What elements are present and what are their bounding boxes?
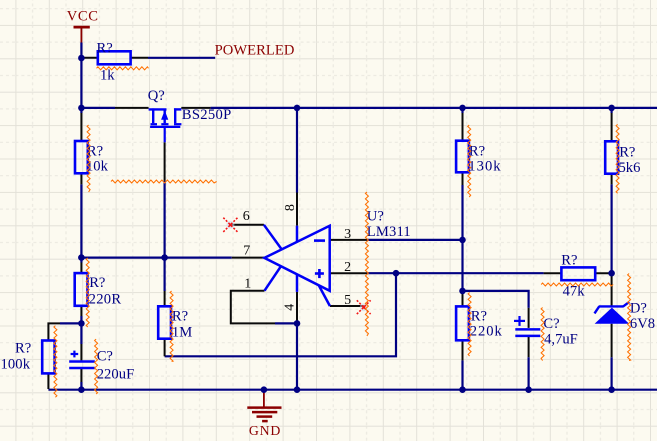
junction node J3 [78, 254, 85, 261]
pin op-amp 4 [296, 292, 298, 324]
pin mosfet gate [164, 142, 166, 181]
svg-text:GND: GND [249, 423, 281, 438]
compile squiggle R220k [468, 293, 471, 357]
svg-text:LM311: LM311 [367, 224, 411, 240]
svg-text:7: 7 [243, 244, 250, 259]
wire 220R bottom to node A [80, 316, 82, 323]
wire cap bottom to gnd rail [80, 382, 82, 390]
svg-text:1M: 1M [172, 324, 192, 340]
svg-text:3: 3 [344, 227, 351, 242]
svg-text:R?: R? [97, 40, 113, 56]
pin R100k bottom [47, 373, 49, 389]
svg-text:5k6: 5k6 [619, 160, 641, 176]
wire pin2 to 47k [367, 272, 544, 274]
wire node A to 100k branch [60, 322, 81, 324]
svg-text:220k: 220k [470, 324, 503, 340]
wire pin3 node down to 220k node [461, 240, 463, 291]
pin op-amp 8 [296, 193, 298, 226]
pin R220R top [80, 263, 82, 274]
compile squiggle under mosfet [111, 180, 217, 183]
svg-text:R?: R? [172, 308, 188, 324]
wire mosfet gate down to J4 [164, 181, 166, 258]
pin mosfet drain [181, 107, 210, 109]
svg-text:130k: 130k [468, 158, 501, 174]
wire R10k bottom to J3 [80, 184, 82, 257]
svg-text:Q?: Q? [148, 88, 165, 104]
junction node gnd tap [261, 386, 268, 393]
svg-text:D?: D? [630, 300, 647, 316]
svg-text:220R: 220R [89, 291, 122, 307]
pin R220k top [462, 291, 464, 307]
wire 220R top from J3 [80, 258, 82, 263]
capacitor C220uF [69, 349, 134, 383]
svg-text:5: 5 [344, 293, 351, 308]
junction node 220k cap [459, 288, 466, 295]
svg-text:100k: 100k [1, 356, 31, 372]
pin R220R bottom [80, 306, 82, 316]
junction node R130k rail [459, 105, 466, 112]
svg-text:4: 4 [283, 304, 298, 311]
svg-text:BS250P: BS250P [182, 107, 232, 123]
svg-text:R?: R? [15, 341, 31, 357]
wire R130k top [461, 108, 463, 113]
pin R47k right [595, 272, 611, 274]
pin op-amp 1 with loop [231, 291, 275, 324]
junction node pin3 [459, 237, 466, 244]
svg-text:POWERLED: POWERLED [215, 42, 295, 58]
pin R220k bottom [462, 340, 464, 360]
pin op-amp 7 [232, 257, 265, 259]
pin C220uF bottom [80, 369, 82, 382]
pin R5k6 top [611, 113, 613, 141]
svg-text:R?: R? [619, 144, 635, 160]
junction node cap47 gnd [525, 386, 532, 393]
pin op-amp 2 [330, 272, 367, 274]
compile squiggle C220uF [95, 339, 98, 394]
compile squiggle zener [628, 274, 631, 361]
wire pin1 loop navy part [275, 322, 297, 324]
resistor R130k [456, 141, 501, 175]
compile squiggle R220R [86, 258, 89, 327]
pin op-amp 5 [330, 305, 364, 307]
wire 220k bottom to gnd rail [461, 360, 463, 389]
svg-text:1: 1 [244, 277, 251, 292]
wire zener bottom to gnd rail [610, 357, 612, 390]
junction node A [78, 320, 85, 327]
junction node zener gnd [608, 386, 615, 393]
svg-text:R?: R? [471, 308, 487, 324]
wire cap 4.7uF bottom to gnd rail [527, 357, 529, 390]
capacitor C4.7uF [514, 316, 578, 348]
junction node pin8 rail [294, 105, 301, 112]
svg-text:R?: R? [469, 144, 485, 160]
wire VCC stub to node [80, 43, 82, 59]
resistor R220R [75, 273, 122, 307]
wire pin8 top [296, 108, 298, 193]
transistor Q1 BS250P [148, 88, 232, 142]
pin C4.7uF bottom [528, 337, 530, 357]
resistor R10k [75, 141, 109, 175]
pin R10k top [80, 113, 82, 141]
compile squiggle U? [365, 192, 368, 336]
diode D1 zener 6V8 [595, 300, 656, 332]
svg-text:R?: R? [561, 253, 577, 269]
svg-text:47k: 47k [563, 284, 586, 300]
wire R5k6 bottom to 47k node [610, 184, 612, 273]
wire J4 down to R1M [164, 258, 166, 291]
junction node 220k gnd [459, 386, 466, 393]
svg-text:220uF: 220uF [97, 366, 135, 382]
pin mosfet source [115, 107, 149, 109]
no-erc marker pin5 [357, 300, 371, 314]
ground GND [247, 390, 281, 438]
svg-text:6V8: 6V8 [630, 316, 655, 332]
wire 220k node to cap 4.7uF [463, 291, 529, 308]
wire R10k top [80, 108, 82, 113]
resistor R1k [97, 40, 131, 83]
svg-text:C?: C? [543, 316, 559, 332]
svg-text:4,7uF: 4,7uF [544, 332, 578, 348]
junction node pin2 feedback [393, 270, 400, 277]
pin R1k left [81, 57, 97, 59]
resistor R5k6 [605, 141, 640, 176]
pin R10k bottom [80, 173, 82, 184]
wire R130k bottom to pin3 node [461, 185, 463, 240]
wire top rail left segment [81, 107, 115, 109]
pin R47k left [544, 272, 562, 274]
svg-text:R?: R? [89, 275, 105, 291]
wire R1M bottom loop to pin2 node [165, 273, 396, 356]
pin R5k6 bottom [611, 174, 613, 185]
compile squiggle R100k [54, 326, 57, 398]
pin R1k right [131, 57, 148, 59]
pin R1M top [164, 291, 166, 306]
wire divider rail J3 to pin7 [81, 257, 231, 259]
pin R130k bottom [462, 172, 464, 185]
compile squiggle C4.7uF [541, 308, 544, 361]
junction node cap220 gnd [78, 386, 85, 393]
compile squiggle under 47k [541, 283, 613, 286]
pin R100k loop top [48, 323, 60, 340]
wire pin4 bottom junction to gnd rail [296, 323, 298, 389]
svg-text:1k: 1k [100, 68, 115, 84]
wire top rail right of mosfet [211, 107, 657, 109]
svg-text:VCC: VCC [67, 9, 98, 25]
junction node 47k zener [608, 270, 615, 277]
resistor R100k [1, 341, 55, 374]
pin R1M bottom [164, 339, 166, 357]
junction node R5k6 rail [608, 105, 615, 112]
pin R130k top [462, 113, 464, 141]
resistor R220k [456, 306, 502, 340]
compile squiggle R5k6 [616, 124, 619, 193]
svg-text:2: 2 [344, 260, 351, 275]
compile squiggle R1M [170, 291, 173, 362]
wire R5k6 top [610, 108, 612, 113]
svg-text:C?: C? [97, 349, 113, 365]
compile squiggle R130k [468, 125, 471, 197]
wire gnd rail [48, 389, 657, 391]
junction node J4 [161, 254, 168, 261]
pin zener top [611, 273, 613, 306]
junction node pin4 gnd [294, 386, 301, 393]
compile squiggle R10k [87, 125, 90, 192]
junction node VCC-R1k [78, 55, 85, 62]
wire pin3 to R130k node [367, 239, 463, 241]
pin zener bottom [611, 324, 613, 358]
compile squiggle under R1k [97, 67, 149, 70]
power port VCC [67, 9, 98, 43]
junction node pin4 [294, 320, 301, 327]
resistor R1M [158, 306, 192, 340]
svg-text:U?: U? [367, 208, 384, 224]
pin C220uF top [80, 344, 82, 360]
wire VCC node down to gate rail [80, 58, 82, 108]
junction node top rail left [78, 105, 85, 112]
svg-text:8: 8 [283, 204, 298, 211]
wire node A down to cap [80, 323, 82, 344]
no-erc marker pin6 [223, 218, 237, 232]
wire R1k out to POWERLED [148, 57, 215, 59]
svg-text:6: 6 [243, 209, 250, 224]
op-amp U1 LM311 [264, 208, 411, 306]
pin op-amp 6 [232, 224, 264, 226]
resistor R47k [561, 253, 595, 300]
pin op-amp 3 [330, 239, 367, 241]
pin C4.7uF top [528, 308, 530, 328]
